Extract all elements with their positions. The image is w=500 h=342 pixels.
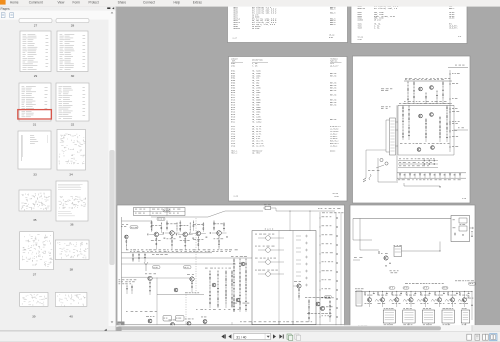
transistor Q202 (170, 231, 175, 236)
stacks (308, 299, 310, 322)
svg-text:Home: Home (10, 1, 19, 5)
thumbnail 38 (55, 240, 89, 260)
bias stack (166, 221, 168, 231)
cap C302 (471, 235, 473, 238)
horizontal scrollbar (116, 325, 500, 331)
collector stack (189, 222, 191, 233)
emitter stack (184, 237, 186, 250)
wire rail A (122, 252, 213, 254)
output block (451, 216, 470, 242)
coupling capacitor (336, 244, 339, 246)
emitter stack (218, 235, 220, 249)
coupling cap (146, 234, 149, 236)
coupling cap (175, 234, 178, 236)
box around regulator (partial) (397, 105, 399, 155)
svg-text:TECHNICS: TECHNICS (330, 58, 338, 60)
diode D614 (419, 174, 421, 176)
transistor Q211 (148, 319, 152, 323)
diode D619 (444, 173, 446, 176)
thumbnail 35 (19, 190, 51, 211)
collector stack (176, 222, 178, 231)
next page button (273, 334, 276, 338)
svg-text:ERD-M: ERD-M (330, 9, 335, 11)
prev view icon (287, 334, 291, 339)
coil box B (176, 316, 185, 322)
svg-text:35: 35 (33, 218, 37, 222)
interstage wire (159, 233, 164, 235)
hanging cluster on rail (132, 253, 134, 262)
resistor R314 (406, 293, 407, 295)
red current-view rect on thumb 31 (18, 110, 52, 119)
page badge (118, 322, 125, 327)
diode D612 (409, 174, 411, 176)
thumbnail 31 (19, 83, 51, 121)
svg-text:L2-59-4: L2-59-4 (330, 145, 337, 147)
right diode chain (449, 70, 451, 133)
label muting amp (390, 270, 392, 273)
emitter stack (155, 237, 157, 250)
value labels (180, 224, 183, 227)
wire (353, 259, 360, 261)
wire am osc rail (157, 294, 204, 296)
right diode chain 2 (449, 107, 451, 152)
svg-text:Help: Help (174, 1, 181, 5)
svg-text:a-02: a-02 (358, 39, 362, 41)
transformer T601 (390, 118, 396, 155)
resistor R318 (459, 293, 460, 295)
first page button (221, 334, 224, 338)
wire drops to band box (289, 211, 291, 231)
capacitor C311 (373, 292, 375, 295)
capacitor C314 (414, 292, 416, 295)
transistor Q209 (316, 302, 320, 306)
transistor Q214 (203, 320, 207, 324)
wire (360, 249, 379, 251)
transistor Q207 (190, 277, 194, 281)
right top cluster (455, 280, 457, 283)
transistor Q206 (148, 276, 152, 280)
thumbnail 29 (20, 31, 51, 72)
svg-text:C702: C702 (231, 66, 235, 68)
bottom rail (355, 327, 472, 329)
wire B+ out (448, 67, 468, 69)
transistor Q205 (217, 231, 222, 236)
svg-text:5-02: 5-02 (335, 196, 339, 198)
bias stack (150, 221, 152, 232)
right edge chain (471, 291, 473, 320)
collector stack (202, 222, 204, 232)
diode D615 (424, 173, 426, 176)
coupling capacitor (336, 271, 339, 273)
capacitor C301 (462, 234, 464, 237)
resistor R302 (379, 252, 380, 254)
coupling cap (162, 232, 165, 234)
svg-text:a-8: a-8 (458, 36, 461, 38)
footer label (358, 324, 360, 327)
svg-text:DESCRIPTION: DESCRIPTION (252, 59, 263, 61)
collector stack (160, 222, 162, 233)
transistor Q212 (171, 323, 175, 327)
resistor chain 3 (425, 92, 427, 103)
svg-text:32: 32 (71, 123, 75, 127)
resistor chain 5 (442, 81, 444, 103)
capacitor C313 (400, 292, 402, 295)
transistor Q208 (297, 284, 301, 288)
transistor Q213 (187, 322, 191, 326)
labels inside (400, 143, 402, 146)
svg-text:4N-M-477: 4N-M-477 (330, 66, 338, 68)
IF can T303 (422, 310, 434, 323)
emitter stack (197, 236, 199, 250)
legend row 2 (398, 163, 438, 165)
svg-text:a-17: a-17 (233, 38, 237, 40)
resistor R313 (392, 293, 393, 295)
svg-text:34: 34 (69, 173, 73, 177)
coupling capacitor (336, 235, 339, 237)
svg-text:ERT-34: ERT-34 (330, 90, 336, 92)
transistor Q317 (451, 298, 455, 302)
top right labels (318, 207, 320, 210)
prev page button (228, 334, 231, 338)
IF can T302 (403, 310, 415, 323)
page: resistor/capacitor parts list (229, 57, 348, 202)
transistor Q605 (417, 148, 421, 152)
left vertical bus (396, 105, 398, 183)
svg-text:CR, 14.28 PL: CR, 14.28 PL (252, 145, 265, 147)
svg-text:39: 39 (32, 315, 36, 319)
svg-text:T603: T603 (358, 27, 362, 29)
IF transformer L301 (394, 247, 402, 257)
svg-text:CIRCUIT: CIRCUIT (231, 58, 238, 60)
chain 3 (425, 118, 427, 142)
thumbnail 36 (56, 181, 88, 221)
diode D617 (434, 173, 436, 176)
labels mid (404, 100, 406, 103)
resistor R311 (365, 293, 366, 295)
diode D6112 (459, 174, 461, 176)
legend row 1 (398, 160, 438, 162)
svg-text:37: 37 (33, 273, 37, 277)
wire vertical run (156, 278, 158, 323)
svg-text:Extras: Extras (193, 1, 202, 5)
bottom navigation bar (0, 331, 500, 342)
value labels (214, 223, 217, 226)
trim caps column (305, 235, 308, 238)
wire (404, 102, 452, 104)
right chains (335, 212, 337, 326)
diode D618 (439, 174, 441, 176)
wire rise to coupling cap (208, 211, 225, 217)
svg-text:a-20: a-20 (462, 198, 466, 200)
bias stack (213, 221, 215, 231)
transistor Q316 (438, 298, 442, 302)
svg-text:Dxxxx: Dxxxx (330, 150, 335, 152)
wire h-connect (122, 276, 148, 278)
primary leads (386, 119, 390, 121)
svg-text:TR, 120K2: TR, 120K2 (252, 121, 261, 123)
bottom rail 1 (397, 172, 466, 174)
transistor Q210 (321, 307, 325, 311)
chain 2 (408, 105, 410, 140)
coil box A (163, 316, 172, 322)
svg-text:ERT-38: ERT-38 (330, 119, 336, 121)
wire left edge (352, 219, 354, 241)
left-adjacent stacks (233, 258, 235, 312)
resistor chain 2 (413, 81, 415, 103)
page: FM/AM tuner schematic (landscape, left) (117, 205, 345, 330)
thumbnail 33 (18, 131, 51, 169)
capacitor C201 (265, 206, 271, 210)
label row top (405, 77, 407, 80)
diode D616 (429, 174, 431, 176)
svg-text:ERT-38: ERT-38 (330, 95, 336, 97)
antenna (144, 262, 148, 271)
svg-text:31: 31 (33, 123, 37, 127)
svg-text:a-19: a-19 (234, 196, 238, 198)
ground (385, 266, 387, 267)
splitter grip (116, 327, 121, 335)
svg-text:ERT-38: ERT-38 (330, 75, 336, 77)
label box (325, 296, 332, 299)
transistor Q201 (154, 232, 159, 237)
thumbnail cells 27,28 (19, 19, 52, 23)
svg-text:27: 27 (34, 24, 38, 28)
thumbnail 40 (55, 293, 87, 307)
coupling capacitor (336, 298, 339, 300)
AC cord (369, 174, 371, 180)
svg-text:30: 30 (71, 74, 75, 78)
menu bar (0, 0, 500, 7)
svg-text:B A N D: B A N D (265, 228, 274, 231)
thumbnail 32 (56, 83, 89, 121)
resistor chain 4 (436, 90, 438, 103)
svg-text:ERT-38: ERT-38 (330, 104, 336, 106)
resistor R317 (448, 293, 449, 295)
label oval FM RF (130, 226, 138, 229)
transistor Q606 (431, 146, 435, 150)
svg-text:Form: Form (73, 1, 81, 5)
svg-text:SM-19: SM-19 (329, 35, 334, 37)
left stacks (126, 285, 128, 295)
IF can T305 (461, 310, 470, 323)
svg-text:MTL 1/4W 5%, 120K, 1 W: MTL 1/4W 5%, 120K, 1 W (374, 8, 398, 10)
next view icon (disabled) (295, 334, 299, 339)
wire rail B (122, 257, 253, 259)
svg-text:Protect: Protect (89, 1, 99, 5)
svg-text:T, NR: T, NR (252, 66, 257, 68)
thumbnails panel (0, 7, 116, 331)
wire top rail (404, 80, 452, 82)
svg-text:R531CA: R531CA (234, 27, 241, 30)
IF can T301 (383, 310, 395, 323)
svg-text:SM-19: SM-19 (333, 193, 338, 195)
coupling capacitor (336, 217, 339, 219)
svg-text:SM-B-ETS: SM-B-ETS (449, 27, 457, 29)
capacitor C303 (389, 262, 391, 265)
resistor R315 (420, 293, 421, 295)
svg-text:36: 36 (70, 223, 74, 227)
label oval (157, 217, 165, 220)
page: parts list top-right (cropped) (351, 2, 467, 44)
resistor chain 1 (407, 81, 409, 103)
labels above mid rail (399, 102, 401, 105)
fuse F602 (385, 162, 388, 165)
svg-text:SM-50: SM-50 (449, 18, 454, 20)
diode D611 (404, 173, 406, 176)
transistor Q315 (423, 298, 427, 302)
resistor R312 (378, 293, 379, 295)
header label boxes (389, 287, 395, 290)
bias stack (179, 221, 181, 232)
wire (353, 239, 372, 241)
svg-text:TR17-2: TR17-2 (231, 153, 237, 155)
left margin labels (119, 279, 121, 282)
wire bottom rail (122, 324, 345, 326)
svg-text:C719: C719 (231, 145, 235, 147)
tuning gang dashed (185, 295, 187, 322)
page: power supply schematic (353, 56, 471, 203)
interstage wire (221, 232, 226, 234)
capacitor C315 (429, 292, 431, 295)
label left margin (381, 88, 384, 91)
value labels (151, 224, 154, 227)
thumbnail 34 (57, 130, 86, 171)
bottom rail 2 (397, 177, 466, 179)
svg-text:SW, TEST: SW, TEST (252, 153, 260, 155)
transistor Q301 (384, 256, 388, 260)
capacitor C316 (443, 292, 445, 295)
wire from transformer (396, 121, 399, 123)
wire (377, 158, 379, 182)
svg-text:ERD-M: ERD-M (330, 24, 335, 26)
svg-text:Pages: Pages (1, 7, 10, 11)
legend caps (423, 160, 426, 162)
left input transistor (125, 235, 129, 239)
svg-text:40: 40 (69, 315, 73, 319)
B1 out (454, 129, 468, 131)
wire mid rail (398, 104, 454, 106)
filter squiggles (375, 299, 381, 301)
left margin text 2 (381, 106, 384, 109)
transistor Q311 (367, 298, 371, 302)
coupling cap (209, 232, 212, 234)
bias stack (192, 221, 194, 231)
svg-text:CA 4700: CA 4700 (252, 27, 259, 30)
transistor Q603 (419, 114, 423, 118)
interstage wire (201, 232, 206, 234)
svg-text:38: 38 (70, 268, 74, 272)
svg-text:Share: Share (118, 1, 127, 5)
transistor Q313 (395, 298, 399, 302)
svg-text:31 / 40: 31 / 40 (236, 335, 246, 339)
diode D613 (414, 173, 416, 176)
IF rail top (355, 290, 472, 292)
svg-text:5-02: 5-02 (329, 37, 333, 39)
bottom tail wires (403, 183, 405, 186)
right bus x320 (319, 212, 321, 326)
svg-text:33: 33 (33, 173, 37, 177)
wire top band feed (122, 220, 153, 222)
svg-text:CE 4747: CE 4747 (374, 20, 381, 22)
page number box (234, 333, 271, 339)
wire inside (278, 231, 280, 325)
wire ac run (365, 150, 367, 178)
wire top (353, 218, 451, 220)
mid-right chains (209, 270, 211, 308)
coupling capacitor (336, 289, 339, 291)
capacitor C312 (386, 292, 388, 295)
diode D6110 (449, 174, 451, 176)
switch wafer S1-3 (266, 260, 271, 265)
svg-text:Comment: Comment (29, 1, 43, 5)
collector stack (223, 222, 225, 231)
transistor Q204 (196, 231, 201, 236)
svg-text:R605-10: R605-10 (358, 8, 365, 10)
thumbnail 39 (20, 293, 48, 307)
coupling capacitor (336, 316, 339, 318)
label oval MW (153, 266, 161, 269)
coupling capacitor (336, 253, 339, 255)
interstage wire (174, 232, 179, 234)
resistor R301 (455, 233, 456, 235)
chain 1 (402, 105, 404, 140)
capacitor C318 (468, 292, 470, 295)
switch wafer S1-2 (266, 248, 271, 253)
fuse F601 (380, 158, 383, 161)
emitter stack (171, 235, 173, 249)
transistor Q602 (430, 86, 434, 90)
coupling capacitor (336, 226, 339, 228)
value labels (193, 223, 196, 226)
BAND switch box (252, 231, 316, 325)
risers to rail (156, 322, 158, 325)
label band (126, 249, 128, 252)
wire rail C (122, 263, 237, 265)
legend row 3 (398, 167, 438, 169)
transistor Q314 (409, 298, 413, 302)
page: IF amplifier schematic (landscape, right) (350, 205, 475, 330)
strip header text (405, 282, 408, 285)
svg-text:R722: R722 (231, 121, 235, 123)
transistor Q318 (462, 298, 466, 302)
plug (363, 178, 366, 182)
svg-text:View: View (58, 1, 66, 5)
value labels (167, 223, 170, 226)
diode D610 (399, 174, 401, 176)
label oval SW (184, 266, 192, 269)
coupling capacitor (336, 262, 339, 264)
diode D6111 (454, 173, 456, 176)
IF can T304 (442, 310, 454, 323)
out arrow (470, 227, 474, 229)
chain 5 (446, 105, 448, 142)
switch wafer S1-1 (266, 236, 271, 241)
transistor Q601 (419, 87, 423, 91)
label oval (163, 209, 170, 212)
switch S601 (376, 165, 384, 168)
svg-text:29: 29 (34, 74, 38, 78)
resistor R316 (435, 293, 436, 295)
wire left bus (121, 217, 123, 322)
title block (134, 208, 186, 216)
svg-text:Connect: Connect (143, 1, 155, 5)
page: parts list top-left (cropped) (228, 2, 348, 43)
svg-text:ERD-S: ERD-S (449, 8, 454, 10)
transistor Q203 (183, 232, 188, 237)
switch wafer S1-4 (266, 272, 271, 277)
input block (356, 291, 362, 306)
coupling cap (188, 233, 191, 235)
